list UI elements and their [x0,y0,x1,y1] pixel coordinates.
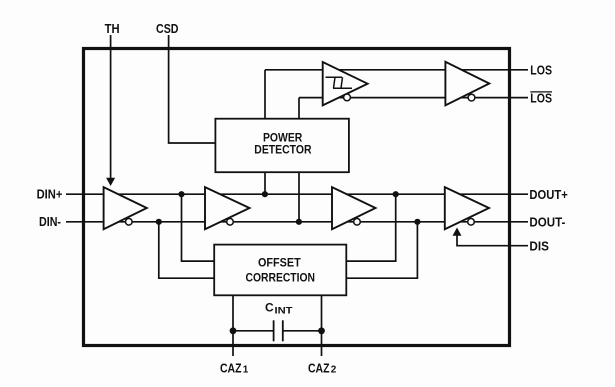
svg-text:2: 2 [331,365,337,376]
svg-text:DIN-: DIN- [39,214,61,229]
wire PD top to comparator input A [264,70,266,119]
wire lower signal line DIN- to DOUT- [66,221,528,223]
power detector block [215,119,349,173]
label CINT [265,301,293,316]
hysteresis symbol [326,77,353,88]
junction dot lower line 1 [156,219,162,225]
svg-text:CAZ: CAZ [308,361,330,376]
wire upper signal line DIN+ to DOUT+ [66,193,528,195]
wire lower line to offset correction left [159,222,214,278]
svg-text:TH: TH [105,21,120,36]
arrowhead DIS into A4 [453,228,462,236]
svg-text:DIS: DIS [529,238,549,253]
wire capacitor to CAZ2 [283,330,322,332]
wire CAZ1 to capacitor [233,330,274,332]
junction dot upper line 3 [393,191,399,197]
wire PD bottom to lower signal line [298,172,300,222]
svg-text:LOS: LOS [530,63,552,78]
wire CAZ1 vertical [232,295,234,356]
wire TH vertical [110,35,112,179]
svg-text:INT: INT [275,306,294,316]
amplifier A1 [104,187,147,229]
wire DIS to amp A4 [457,235,528,246]
wire PD bottom to upper signal line [264,172,266,194]
offset correction block [214,245,346,296]
amplifier A2 [205,187,250,229]
svg-text:1: 1 [243,365,249,376]
wire CSD to power detector [169,35,216,143]
junction dot CAZ2 [318,327,325,334]
svg-text:DOUT-: DOUT- [529,215,565,230]
IC outer boundary box [84,49,510,346]
wire upper line to offset correction right [346,194,395,261]
svg-text:OFFSET: OFFSET [258,256,301,270]
amplifier A3 [332,187,376,229]
svg-text:C: C [265,301,274,315]
junction dot lower line 2 [296,219,302,225]
svg-text:CAZ: CAZ [220,361,242,376]
arrowhead TH into A1 [106,178,115,186]
comparator U5 (schmitt trigger) [323,62,368,105]
pin label LOSB with overline [530,90,552,105]
wire lower line to offset correction right [346,222,417,278]
svg-text:CORRECTION: CORRECTION [246,271,316,285]
wire LOSB line [299,97,528,99]
inverting bubble U6 [468,94,475,101]
buffer U6 (LOS output) [445,62,489,106]
junction dot upper line 2 [262,191,268,197]
wire CAZ2 vertical [321,295,323,356]
svg-text:CSD: CSD [156,21,179,36]
junction dot CAZ1 [230,327,237,334]
wire PD top to comparator input B [298,98,300,119]
capacitor CINT plates [274,320,283,341]
svg-text:DIN+: DIN+ [37,187,63,202]
svg-text:DOUT+: DOUT+ [529,187,568,202]
junction dot upper line 1 [178,191,184,197]
inverting bubble U5 [344,94,351,101]
amplifier A4 (output) [445,187,489,229]
junction dot lower line 3 [414,219,420,225]
wire upper line to offset correction left [182,194,215,261]
wire LOS line [265,69,528,71]
svg-text:DETECTOR: DETECTOR [254,143,311,157]
